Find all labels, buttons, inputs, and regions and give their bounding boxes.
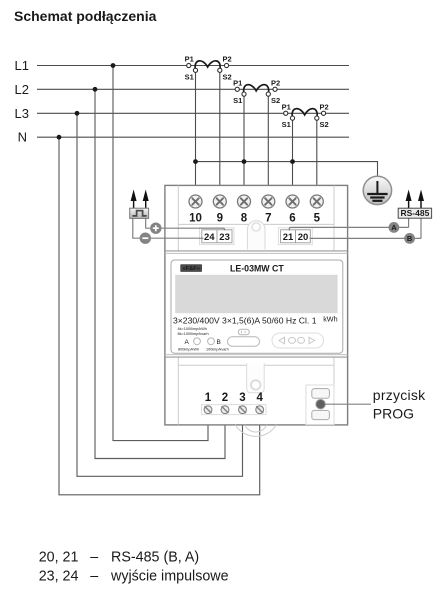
svg-text:4: 4	[256, 392, 263, 404]
svg-text:100imp/kvarh: 100imp/kvarh	[206, 348, 229, 352]
svg-text:N: N	[18, 130, 27, 145]
svg-text:4k=1000imp/kWh: 4k=1000imp/kWh	[178, 327, 207, 331]
svg-text:B: B	[407, 234, 413, 243]
svg-text:21: 21	[283, 232, 294, 243]
svg-text:9: 9	[217, 212, 223, 224]
svg-text:wyjście impulsowe: wyjście impulsowe	[110, 568, 229, 584]
svg-text:24: 24	[204, 232, 215, 243]
svg-text:LE-03MW CT: LE-03MW CT	[230, 264, 284, 274]
svg-text:PROG: PROG	[373, 405, 414, 421]
svg-text:1: 1	[205, 392, 212, 404]
svg-text:L2: L2	[15, 82, 29, 97]
svg-text:800imp/kWh: 800imp/kWh	[178, 348, 199, 352]
svg-text:A: A	[391, 223, 397, 232]
svg-text:RS-485: RS-485	[400, 208, 429, 218]
svg-text:kWh: kWh	[323, 315, 337, 324]
svg-text:5: 5	[314, 212, 321, 224]
svg-text:20: 20	[298, 232, 309, 243]
svg-text:L1: L1	[15, 58, 29, 73]
svg-text:A: A	[185, 339, 190, 346]
svg-text:23, 24: 23, 24	[39, 568, 79, 584]
svg-text:B: B	[217, 339, 221, 346]
svg-text:RS-485 (B, A): RS-485 (B, A)	[111, 549, 199, 565]
svg-text:8k=1000imp/kvarh: 8k=1000imp/kvarh	[178, 332, 209, 336]
svg-text:–: –	[90, 549, 98, 565]
svg-text:10: 10	[189, 212, 202, 224]
svg-text:23: 23	[219, 232, 230, 243]
svg-text:3: 3	[239, 392, 245, 404]
svg-text:przycisk: przycisk	[373, 387, 426, 403]
svg-text:2: 2	[222, 392, 228, 404]
svg-text:20, 21: 20, 21	[39, 549, 79, 565]
svg-text:7: 7	[265, 212, 271, 224]
svg-text:L3: L3	[15, 106, 29, 121]
svg-text:–: –	[90, 568, 98, 584]
svg-text:8: 8	[241, 212, 248, 224]
svg-text:3×230/400V 3×1,5(6)A 50/60 H: 3×230/400V 3×1,5(6)A 50/60 Hz Cl. 1	[173, 316, 317, 326]
svg-text:6: 6	[289, 212, 295, 224]
svg-text:Schemat podłączenia: Schemat podłączenia	[14, 8, 157, 24]
svg-text:«F&F»: «F&F»	[182, 266, 200, 272]
